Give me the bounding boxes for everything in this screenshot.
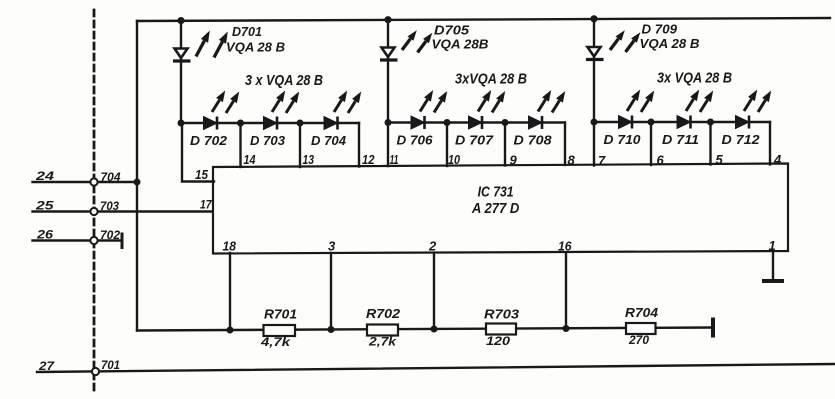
svg-text:VQA 28 B: VQA 28 B	[640, 36, 700, 51]
junction row2 D708	[502, 119, 509, 126]
svg-text:24: 24	[35, 169, 55, 183]
svg-text:2,7k: 2,7k	[368, 335, 398, 349]
wire pin 1	[772, 251, 774, 279]
svg-text:12: 12	[362, 152, 375, 167]
light arrows D702	[212, 91, 239, 114]
svg-text:D 712: D 712	[722, 133, 760, 147]
svg-text:701: 701	[101, 358, 120, 372]
wire pin 4	[769, 122, 771, 165]
svg-text:8: 8	[568, 153, 576, 168]
diode D701	[173, 49, 191, 62]
light arrows D705	[402, 30, 432, 52]
junction top rail / D709	[590, 15, 597, 22]
svg-text:VQA 28B: VQA 28B	[432, 37, 489, 52]
svg-text:1: 1	[769, 238, 776, 253]
wire pin 9	[504, 123, 506, 166]
bus line 27	[37, 364, 835, 372]
resistor R702	[367, 325, 398, 336]
IC U731 body	[213, 164, 788, 254]
svg-text:16: 16	[558, 239, 572, 254]
svg-text:3 x VQA 28 B: 3 x VQA 28 B	[245, 72, 323, 89]
light arrows D710	[627, 90, 654, 113]
svg-text:15: 15	[195, 168, 209, 182]
junction row2 left	[385, 119, 392, 126]
wire pin 13	[299, 123, 301, 167]
LED D703	[264, 117, 278, 130]
wire bottom resistor rail	[137, 328, 710, 331]
light arrows D706	[420, 90, 447, 113]
bus line 24	[33, 181, 138, 183]
light arrows D709	[610, 30, 640, 52]
svg-text:D 703: D 703	[250, 134, 285, 148]
wire pin 10	[446, 123, 448, 167]
svg-text:26: 26	[36, 228, 54, 242]
node 703 terminal	[90, 208, 97, 215]
resistor R704	[626, 323, 656, 334]
wire pin 6	[650, 122, 652, 165]
wire top supply rail	[137, 18, 830, 21]
node 704 terminal	[90, 178, 97, 185]
svg-text:R703: R703	[484, 308, 519, 322]
LED D702	[204, 117, 218, 130]
wire pin 14	[239, 123, 241, 167]
svg-text:VQA 28 B: VQA 28 B	[226, 40, 285, 55]
resistor R703	[486, 324, 516, 335]
junction rail / pin2	[431, 326, 438, 333]
junction row1 D703	[237, 120, 244, 127]
ground terminal right of R704	[711, 320, 715, 336]
svg-text:13: 13	[303, 152, 315, 167]
svg-text:4,7k: 4,7k	[260, 335, 292, 349]
svg-text:D 706: D 706	[397, 134, 434, 148]
svg-text:D 704: D 704	[311, 134, 346, 148]
wire pin 3	[330, 253, 332, 330]
svg-text:11: 11	[390, 152, 399, 167]
wire pin 12	[358, 123, 360, 167]
wire LED row 2	[388, 121, 565, 123]
svg-text:D 710: D 710	[604, 133, 641, 147]
light arrows D712	[744, 90, 771, 113]
junction row3 left	[591, 119, 598, 126]
junction top rail / D701	[177, 17, 184, 24]
svg-text:9: 9	[510, 153, 518, 168]
light arrows D707	[478, 90, 505, 113]
junction rail / pin18	[227, 327, 234, 334]
svg-text:R702: R702	[366, 307, 400, 321]
svg-text:14: 14	[244, 152, 257, 167]
svg-text:D 707: D 707	[455, 134, 494, 148]
svg-text:R704: R704	[625, 306, 658, 320]
svg-text:D 711: D 711	[662, 133, 699, 147]
svg-text:D 708: D 708	[514, 134, 552, 148]
wire LED row 3	[594, 121, 770, 123]
junction line24 / left bus	[134, 179, 141, 186]
svg-text:D 709: D 709	[642, 23, 678, 37]
svg-text:3xVQA 28 B: 3xVQA 28 B	[455, 71, 527, 88]
LED D706	[411, 116, 425, 129]
diode D705	[380, 48, 398, 61]
bus line 26	[33, 239, 121, 241]
wire D709 branch vertical to pin 7	[593, 19, 595, 166]
wire D701 branch vertical	[180, 21, 182, 123]
LED D710	[619, 116, 633, 129]
terminal stub line 26	[121, 234, 124, 248]
svg-text:4: 4	[773, 152, 782, 167]
light arrows D703	[272, 91, 299, 114]
svg-text:17: 17	[200, 198, 213, 212]
junction row1 left	[178, 120, 185, 127]
wire LED row 1	[181, 122, 359, 124]
svg-text:IC 731: IC 731	[478, 184, 514, 201]
svg-text:5: 5	[716, 152, 724, 167]
bus line 25 to pin 17	[33, 210, 215, 212]
LED D704	[324, 117, 338, 130]
svg-text:3: 3	[328, 239, 336, 254]
junction row3 D712	[707, 119, 714, 126]
svg-text:10: 10	[448, 152, 461, 167]
svg-text:2: 2	[428, 239, 437, 254]
svg-text:120: 120	[486, 334, 510, 348]
svg-text:D701: D701	[232, 25, 262, 39]
svg-text:270: 270	[628, 333, 649, 347]
LED D711	[677, 116, 691, 129]
resistor R701	[264, 325, 296, 336]
diode D709	[586, 47, 604, 60]
svg-text:703: 703	[100, 199, 119, 213]
svg-text:R701: R701	[264, 308, 297, 322]
node 702 terminal	[90, 237, 97, 244]
svg-text:702: 702	[100, 228, 120, 242]
wire pin 2	[433, 253, 435, 329]
wire pin 8	[564, 123, 566, 166]
light arrows D701	[196, 31, 228, 58]
svg-text:7: 7	[598, 153, 606, 168]
wire left bus vertical	[136, 21, 138, 331]
dashed boundary line	[93, 10, 96, 390]
junction row3 D711	[648, 119, 655, 126]
LED D708	[529, 116, 543, 129]
node 701 terminal	[92, 368, 99, 375]
svg-text:25: 25	[35, 199, 54, 213]
junction row1 D704	[297, 120, 304, 127]
svg-text:704: 704	[101, 170, 121, 184]
svg-text:D705: D705	[434, 24, 470, 38]
light arrows D704	[334, 91, 361, 114]
svg-text:18: 18	[223, 239, 237, 254]
wire pin 16	[565, 252, 567, 328]
light arrows D708	[538, 90, 565, 113]
junction row2 D707	[444, 119, 451, 126]
junction rail / pin16	[563, 325, 570, 332]
svg-text:27: 27	[38, 359, 56, 373]
wire pin 5	[709, 122, 711, 165]
ground pin 1	[764, 279, 782, 283]
wire D705 branch vertical to pin 11	[387, 20, 389, 166]
svg-text:6: 6	[657, 153, 665, 168]
svg-text:3x VQA 28 B: 3x VQA 28 B	[657, 70, 732, 87]
LED D712	[736, 116, 750, 129]
wire row1 left drop to pin 15	[182, 123, 214, 182]
svg-text:A 277 D: A 277 D	[471, 201, 520, 217]
svg-text:D 702: D 702	[190, 134, 227, 148]
junction rail / pin3	[328, 326, 335, 333]
junction top rail / D705	[384, 16, 391, 23]
light arrows D711	[686, 90, 713, 113]
LED D707	[469, 116, 483, 129]
wire pin 18	[229, 253, 231, 330]
